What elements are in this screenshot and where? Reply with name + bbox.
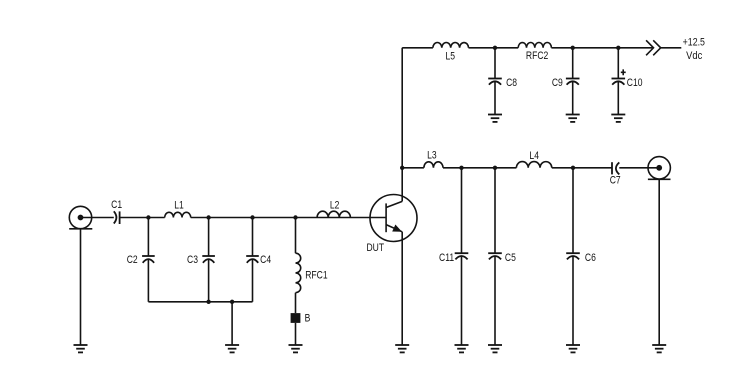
wire L5 to RFC2 xyxy=(469,47,519,49)
svg-text:C1: C1 xyxy=(111,199,122,211)
svg-text:L5: L5 xyxy=(446,50,456,62)
ground bus C2 C3 C4 xyxy=(148,301,252,303)
ground C6 xyxy=(566,345,580,352)
svg-text:C3: C3 xyxy=(187,254,198,266)
wire chevron to supply xyxy=(661,47,682,49)
node C9 top xyxy=(571,46,575,50)
wire L4 to C7 xyxy=(552,167,612,169)
capacitor C9 xyxy=(552,48,580,115)
capacitor C4 xyxy=(246,218,271,302)
capacitor C11 xyxy=(439,168,468,345)
svg-text:C7: C7 xyxy=(610,175,621,187)
ground C11 xyxy=(455,345,469,352)
capacitor C5 xyxy=(488,168,516,345)
node C8 top xyxy=(493,46,497,50)
inductor RFC1 xyxy=(296,218,328,314)
wire C1 to L1 xyxy=(120,217,165,219)
node C3 top xyxy=(206,215,210,219)
svg-text:+12.5: +12.5 xyxy=(683,37,706,49)
inductor L4 xyxy=(516,150,551,168)
capacitor C1 xyxy=(111,199,122,224)
ground RFC1 xyxy=(289,345,303,352)
inductor L1 xyxy=(165,200,191,218)
inductor L5 xyxy=(433,43,469,63)
svg-text:C4: C4 xyxy=(260,254,271,266)
wire input to C1 xyxy=(81,217,114,219)
svg-text:Vdc: Vdc xyxy=(686,50,702,62)
node RFC1 top xyxy=(293,215,297,219)
output rail wire to L3 xyxy=(402,167,424,169)
svg-text:DUT: DUT xyxy=(366,242,384,254)
ground C8 xyxy=(488,115,502,122)
node C3 on bus xyxy=(206,300,210,304)
capacitor C8 xyxy=(488,48,517,115)
RF input connector xyxy=(69,206,92,229)
svg-text:C6: C6 xyxy=(585,252,596,264)
wire input connector to ground xyxy=(80,229,82,345)
inductor RFC2 xyxy=(518,43,551,63)
transistor DUT xyxy=(366,195,417,255)
ground bus xyxy=(225,345,239,352)
capacitor C2 xyxy=(127,218,155,302)
svg-text:RFC2: RFC2 xyxy=(526,50,548,62)
svg-text:C10: C10 xyxy=(627,77,643,89)
node C10 top xyxy=(616,46,620,50)
node C4 top xyxy=(250,215,254,219)
inductor L3 xyxy=(424,150,443,168)
svg-text:L4: L4 xyxy=(529,150,539,162)
ground output connector xyxy=(652,345,666,352)
node C6 top xyxy=(571,166,575,170)
node C11 top xyxy=(459,166,463,170)
capacitor C7 xyxy=(610,162,621,187)
svg-text:L2: L2 xyxy=(330,200,340,212)
wire bead to ground xyxy=(295,323,297,345)
svg-text:L3: L3 xyxy=(427,150,437,162)
ground DUT emitter xyxy=(395,345,409,352)
svg-text:C5: C5 xyxy=(505,252,516,264)
inductor L2 xyxy=(317,200,350,218)
node C5 top xyxy=(493,166,497,170)
ferrite bead B xyxy=(291,312,311,324)
wire L3 to L4 xyxy=(443,167,516,169)
svg-text:RFC1: RFC1 xyxy=(305,269,327,281)
wire L1 to DUT base xyxy=(191,217,386,219)
svg-text:C2: C2 xyxy=(127,254,138,266)
wire C7 to output connector xyxy=(619,167,659,169)
svg-text:C8: C8 xyxy=(506,77,517,89)
top rail wire to L5 xyxy=(402,47,433,49)
RF output connector xyxy=(648,157,671,180)
ground C5 xyxy=(488,345,502,352)
node C2 top xyxy=(146,215,150,219)
svg-text:L1: L1 xyxy=(174,200,184,212)
wire bus to ground xyxy=(231,302,233,345)
ground C9 xyxy=(566,115,580,122)
svg-text:C9: C9 xyxy=(552,77,563,89)
feed chevron xyxy=(646,40,661,55)
wire DUT emitter to ground xyxy=(401,232,403,345)
wire RFC2 to feed chevron xyxy=(551,47,653,49)
wire DUT collector up to top rail xyxy=(401,48,403,202)
ground C10 xyxy=(611,115,625,122)
ground input connector xyxy=(74,345,88,352)
node ground stem on bus xyxy=(230,300,234,304)
capacitor C6 xyxy=(566,168,596,345)
svg-text:C11: C11 xyxy=(439,252,454,264)
capacitor C3 xyxy=(187,218,215,302)
node collector to output rail xyxy=(400,166,404,170)
wire output connector to ground xyxy=(658,179,660,345)
supply label +12.5 Vdc xyxy=(683,37,706,63)
svg-text:B: B xyxy=(305,312,311,324)
capacitor C10 xyxy=(612,48,643,115)
